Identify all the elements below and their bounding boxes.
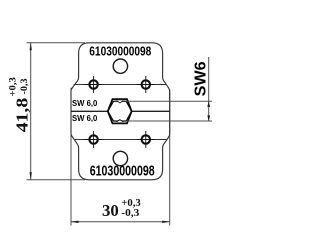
screw hole top-left	[85, 76, 102, 93]
SW6 extension line upper	[126, 100, 212, 102]
strip top edge line	[74, 84, 167, 86]
arrow left (30)	[71, 221, 79, 223]
plain hole bottom	[113, 151, 127, 165]
arrow down (41,8)	[30, 172, 32, 180]
extension line right vertical (30 dim, right)	[169, 90, 171, 226]
die split line right of hex	[132, 110, 170, 112]
svg-text:SW 6,0: SW 6,0	[72, 98, 98, 108]
plain hole top	[113, 59, 127, 73]
arrow right (30)	[162, 221, 170, 223]
svg-text:41,8: 41,8	[12, 98, 31, 133]
svg-text:30: 30	[102, 201, 119, 220]
screw hole top-right	[137, 76, 154, 93]
hex opening outer	[108, 99, 132, 123]
dimension line 41,8	[30, 43, 32, 180]
SW6 leader line	[208, 57, 210, 121]
SW6 arrow down	[207, 115, 210, 121]
svg-text:-0,3: -0,3	[19, 78, 29, 95]
svg-text:SW6: SW6	[192, 61, 209, 96]
hex opening inner	[108, 101, 132, 121]
svg-text:SW 6,0: SW 6,0	[72, 113, 98, 123]
screw hole bottom-right	[137, 131, 154, 148]
SW6 extension line lower	[126, 120, 212, 122]
extension line bottom (41,8 dim)	[27, 179, 86, 181]
svg-text:+0,3: +0,3	[7, 77, 17, 97]
screw hole bottom-left	[85, 131, 102, 148]
extension line top (41,8 dim)	[27, 42, 86, 44]
part outline	[71, 43, 170, 180]
svg-text:61030000098: 61030000098	[89, 43, 151, 58]
hex notch bottom	[117, 119, 124, 122]
SW6 arrow up	[207, 101, 210, 107]
arrow up (41,8)	[30, 43, 32, 51]
hex notch top	[117, 101, 124, 104]
die split line left of hex	[71, 110, 108, 112]
svg-text:-0,3: -0,3	[121, 207, 140, 219]
strip bottom edge line	[74, 139, 166, 141]
dimension line 30	[71, 221, 170, 223]
extension line left vertical (30 dim, left)	[70, 88, 72, 226]
